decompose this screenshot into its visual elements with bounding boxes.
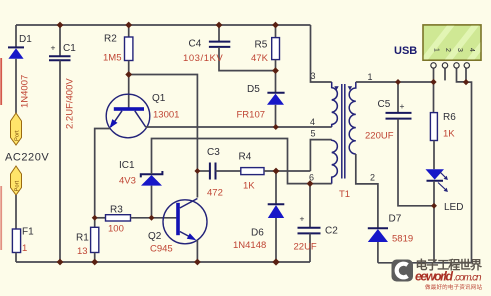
- svg-text:D6: D6: [251, 228, 264, 239]
- svg-text:F1: F1: [22, 227, 34, 238]
- transformer phase mark left: [334, 86, 338, 90]
- svg-text:Port: Port: [15, 130, 21, 141]
- capacitor C5: [386, 82, 412, 119]
- resistor R1: [91, 227, 99, 262]
- svg-text:22UF: 22UF: [294, 242, 317, 253]
- svg-text:C5: C5: [378, 99, 391, 110]
- diode D5: [267, 71, 285, 127]
- watermark logo box: [392, 260, 414, 282]
- svg-text:2: 2: [444, 48, 451, 52]
- resistor R4: [241, 168, 311, 175]
- svg-text:+: +: [51, 43, 56, 53]
- wire node 4 (Q1 collector to transformer pin 4): [146, 126, 332, 128]
- junction zener-R3-Q2 base: [149, 215, 155, 221]
- svg-text:D1: D1: [19, 34, 32, 45]
- junction USB pin1 node: [430, 79, 436, 85]
- wire Q1 emitter to R1 column: [95, 129, 110, 228]
- svg-text:C1: C1: [63, 43, 76, 54]
- svg-text:220UF: 220UF: [365, 131, 394, 142]
- svg-text:1: 1: [22, 243, 27, 254]
- svg-text:2.2UF/400V: 2.2UF/400V: [65, 78, 76, 129]
- wire left column top (rail corner to D1): [15, 25, 17, 47]
- wire Q2 emitter to bottom rail: [196, 240, 198, 262]
- wire node 5 (R4 to transformer pin 5): [310, 140, 331, 171]
- svg-text:C4: C4: [189, 39, 202, 50]
- wire USB pins 3-4 to return rail: [457, 68, 472, 263]
- wire Q1 base node to feedback vertical: [129, 75, 198, 198]
- diode D1: [8, 47, 24, 58]
- USB connector J1: [420, 20, 491, 68]
- svg-text:C945: C945: [150, 244, 173, 255]
- svg-text:1M5: 1M5: [103, 53, 121, 64]
- wire P2 to F1: [15, 195, 17, 229]
- port P1 (AC input): [11, 113, 22, 145]
- wire secondary return rail: [378, 262, 472, 264]
- svg-text:C3: C3: [207, 147, 220, 158]
- wire USB pin 1 lead: [433, 68, 435, 82]
- transformer T1 secondary winding 1-2: [349, 82, 356, 154]
- svg-text:1K: 1K: [443, 129, 455, 140]
- capacitor C1: [49, 25, 71, 262]
- svg-text:Port: Port: [15, 180, 21, 191]
- svg-text:FR107: FR107: [237, 110, 266, 121]
- junction D5 anode on node 4: [273, 124, 279, 130]
- svg-text:3: 3: [456, 48, 463, 52]
- svg-text:+: +: [300, 214, 305, 224]
- svg-text:4: 4: [468, 48, 475, 52]
- svg-text:AC220V: AC220V: [5, 152, 49, 164]
- svg-text:LED: LED: [444, 202, 463, 213]
- junction R3 tap on R1 column: [92, 215, 98, 221]
- svg-text:C2: C2: [325, 226, 338, 237]
- junction LED cathode node: [431, 203, 437, 209]
- svg-text:R2: R2: [104, 34, 117, 45]
- svg-text:Q1: Q1: [152, 93, 166, 104]
- transistor Q2: [163, 199, 207, 244]
- svg-text:T1: T1: [339, 189, 350, 200]
- wire node 6 (to transformer pin 6): [310, 183, 332, 185]
- wire top rail: [16, 24, 311, 26]
- transformer T1 primary winding 3-4: [332, 82, 338, 127]
- transformer T1 feedback winding 5-6: [332, 140, 338, 184]
- svg-text:Q2: Q2: [148, 231, 162, 242]
- junction dots top rail: [57, 22, 279, 29]
- LED indicator: [426, 169, 448, 192]
- svg-text:IC1: IC1: [119, 160, 135, 171]
- svg-text:.com.cn: .com.cn: [454, 273, 482, 284]
- junction C3 tap on Q2 collector: [194, 168, 200, 174]
- svg-text:100: 100: [108, 224, 124, 235]
- svg-text:D5: D5: [247, 84, 260, 95]
- svg-text:R5: R5: [255, 40, 268, 51]
- capacitor C3: [197, 163, 240, 180]
- svg-text:47K: 47K: [251, 53, 269, 64]
- svg-text:R3: R3: [110, 205, 123, 216]
- resistor R6: [430, 82, 437, 169]
- svg-text:4: 4: [310, 117, 315, 127]
- transformer phase mark right: [348, 86, 352, 90]
- transistor Q1: [106, 94, 150, 138]
- wire USB pin 4 stub: [465, 68, 467, 82]
- resistor R3: [95, 215, 177, 221]
- wire USB pin 2 stub: [444, 68, 446, 80]
- svg-text:6: 6: [309, 173, 314, 183]
- svg-text:R6: R6: [443, 112, 456, 123]
- resistor R5: [272, 25, 280, 71]
- junction R4-D6 node: [273, 168, 280, 175]
- svg-text:5: 5: [311, 129, 316, 139]
- capacitor C2: [298, 184, 321, 262]
- svg-text:做最好的电子资讯网站: 做最好的电子资讯网站: [425, 283, 482, 291]
- svg-text:5819: 5819: [392, 234, 413, 245]
- junction Q1 base node: [125, 71, 132, 78]
- svg-text:472: 472: [207, 188, 223, 199]
- svg-text:4V3: 4V3: [119, 176, 136, 187]
- svg-text:1: 1: [368, 72, 373, 82]
- zener IC1: [141, 171, 163, 218]
- wire node 2 (secondary bottom to D7): [356, 154, 378, 228]
- junction node 6: [307, 180, 314, 187]
- svg-text:13: 13: [77, 246, 88, 257]
- wire D1 to Port P1: [15, 59, 17, 113]
- svg-text:R1: R1: [76, 233, 89, 244]
- red edge artifact top: [0, 58, 2, 105]
- wire node 3 (top rail to transformer pin 3): [311, 25, 332, 82]
- resistor R2: [125, 25, 133, 108]
- diode D6: [268, 171, 285, 262]
- red edge artifact bottom: [0, 186, 2, 250]
- svg-text:1K: 1K: [243, 181, 255, 192]
- wire C5 negative to LED cathode node: [398, 119, 434, 206]
- svg-text:R4: R4: [239, 152, 252, 163]
- junction C5 top: [395, 79, 401, 85]
- diode D7: [368, 228, 388, 263]
- wire bottom rail: [16, 261, 310, 263]
- svg-text:103/1KV: 103/1KV: [183, 53, 223, 64]
- svg-text:3: 3: [311, 71, 316, 81]
- svg-text:D7: D7: [389, 214, 402, 225]
- fuse F1: [12, 229, 20, 253]
- port P2 (AC input): [11, 166, 22, 195]
- svg-text:1N4148: 1N4148: [233, 240, 266, 251]
- svg-text:1: 1: [433, 48, 440, 52]
- svg-text:1N4007: 1N4007: [20, 75, 31, 108]
- svg-text:13001: 13001: [153, 110, 179, 121]
- wire LED cathode to return rail: [433, 181, 435, 263]
- wire node 1 (secondary top rail): [356, 81, 434, 83]
- svg-text:+: +: [400, 101, 405, 111]
- wire zener cathode to node 6: [152, 139, 311, 184]
- junction USB pin3-4 node: [463, 79, 469, 85]
- junction dots bottom rail: [57, 258, 280, 265]
- junction snubber node: [272, 67, 279, 74]
- svg-text:eeworld: eeworld: [415, 270, 453, 284]
- transformer T1 core: [342, 84, 345, 179]
- svg-text:2: 2: [370, 173, 375, 183]
- capacitor C4: [209, 25, 276, 71]
- wire F1 to bottom rail: [15, 253, 17, 263]
- svg-text:USB: USB: [394, 45, 417, 57]
